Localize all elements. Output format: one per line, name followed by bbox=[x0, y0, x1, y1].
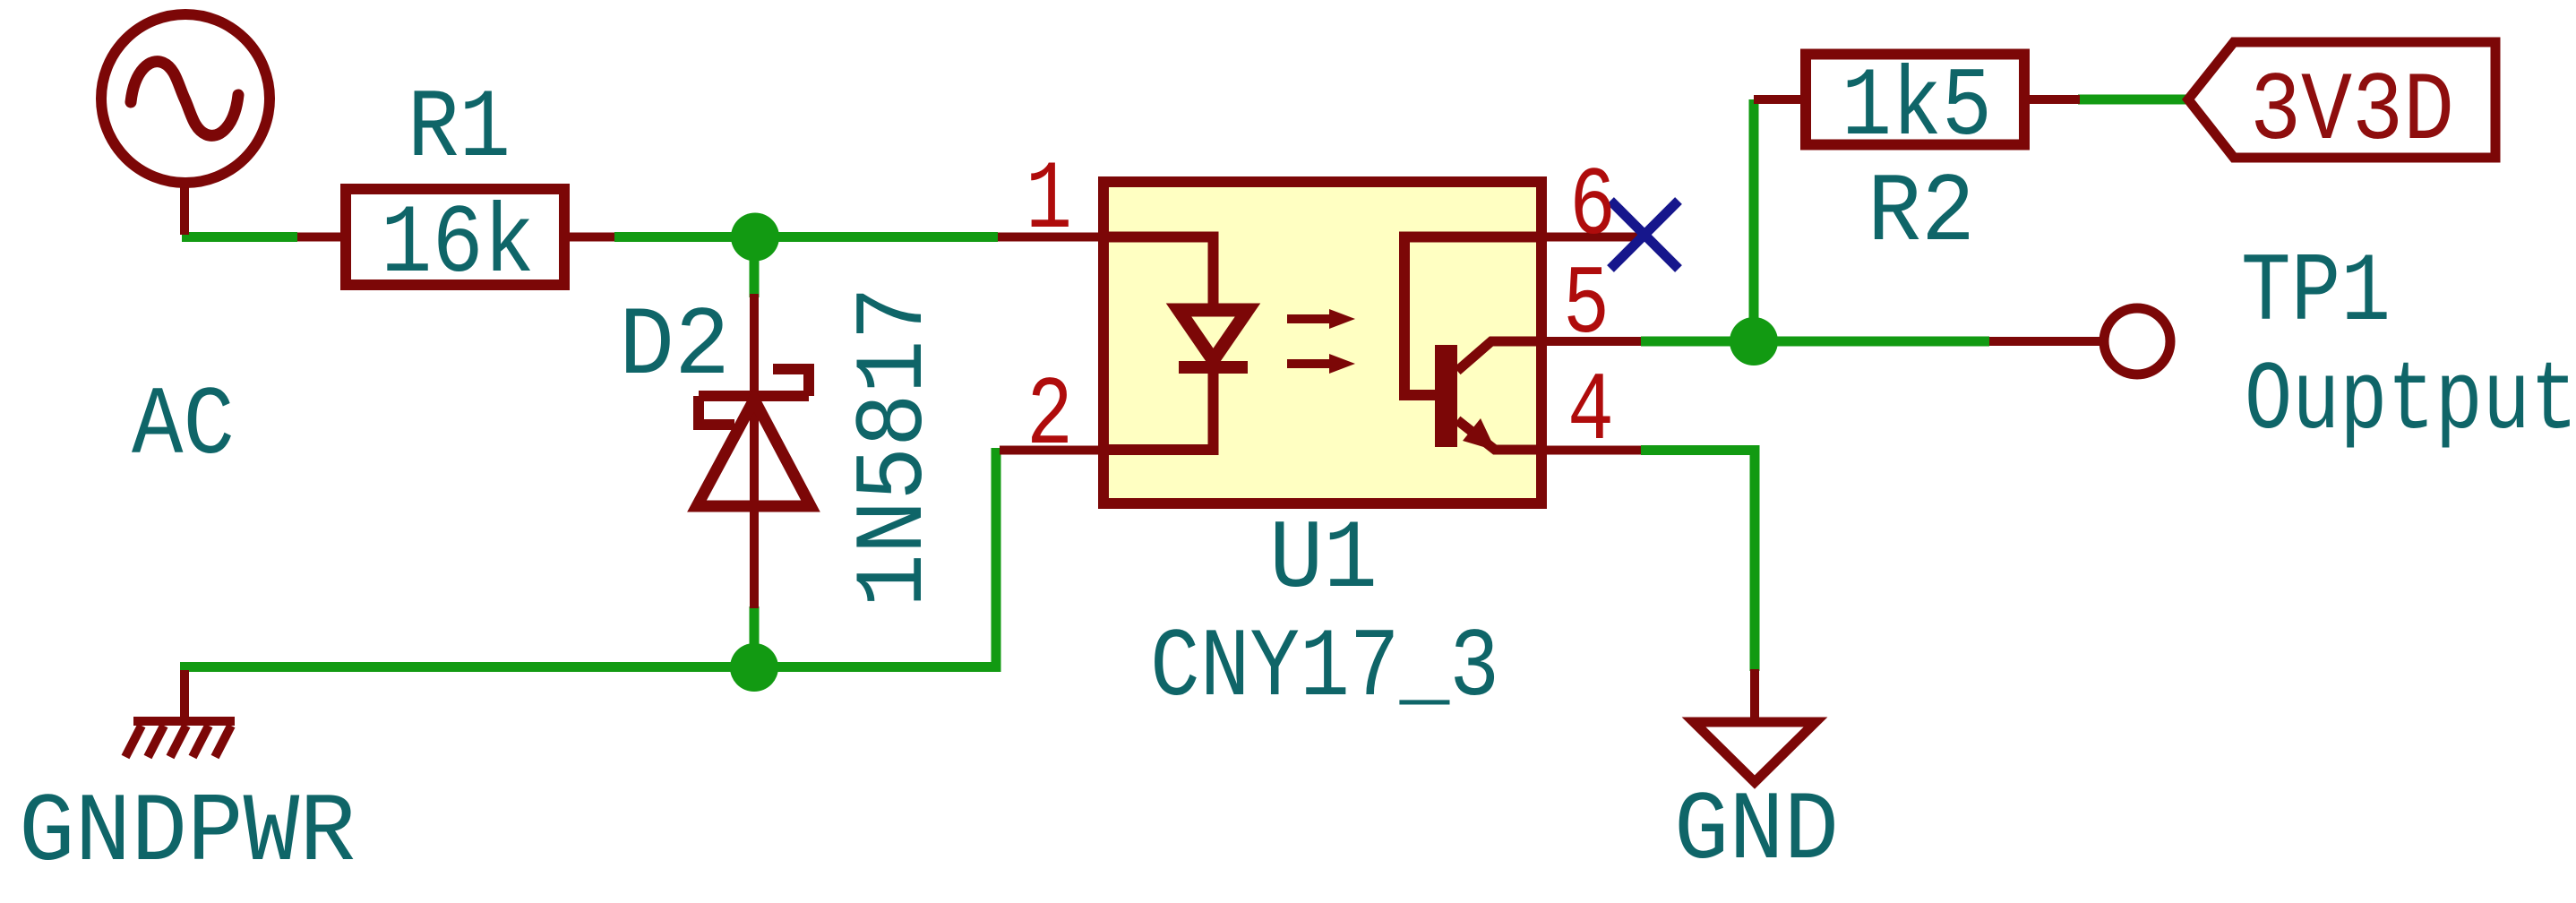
svg-text:1: 1 bbox=[1026, 145, 1072, 256]
svg-text:3V3D: 3V3D bbox=[2250, 56, 2454, 168]
svg-text:GNDPWR: GNDPWR bbox=[19, 778, 356, 889]
svg-text:5: 5 bbox=[1563, 250, 1610, 361]
svg-text:4: 4 bbox=[1567, 357, 1614, 468]
svg-text:1k5: 1k5 bbox=[1842, 52, 1992, 163]
svg-text:16k: 16k bbox=[381, 189, 535, 300]
svg-text:1N5817: 1N5817 bbox=[839, 287, 950, 607]
svg-text:U1: U1 bbox=[1269, 504, 1378, 615]
svg-text:D2: D2 bbox=[619, 291, 730, 402]
svg-text:CNY17_3: CNY17_3 bbox=[1150, 613, 1499, 724]
svg-text:R2: R2 bbox=[1868, 158, 1975, 269]
svg-text:2: 2 bbox=[1026, 361, 1073, 472]
svg-text:6: 6 bbox=[1569, 151, 1616, 262]
svg-text:Ouptput: Ouptput bbox=[2245, 346, 2576, 457]
svg-text:R1: R1 bbox=[408, 73, 511, 185]
svg-text:GND: GND bbox=[1674, 776, 1839, 887]
svg-text:AC: AC bbox=[132, 371, 235, 482]
svg-text:TP1: TP1 bbox=[2241, 237, 2391, 348]
